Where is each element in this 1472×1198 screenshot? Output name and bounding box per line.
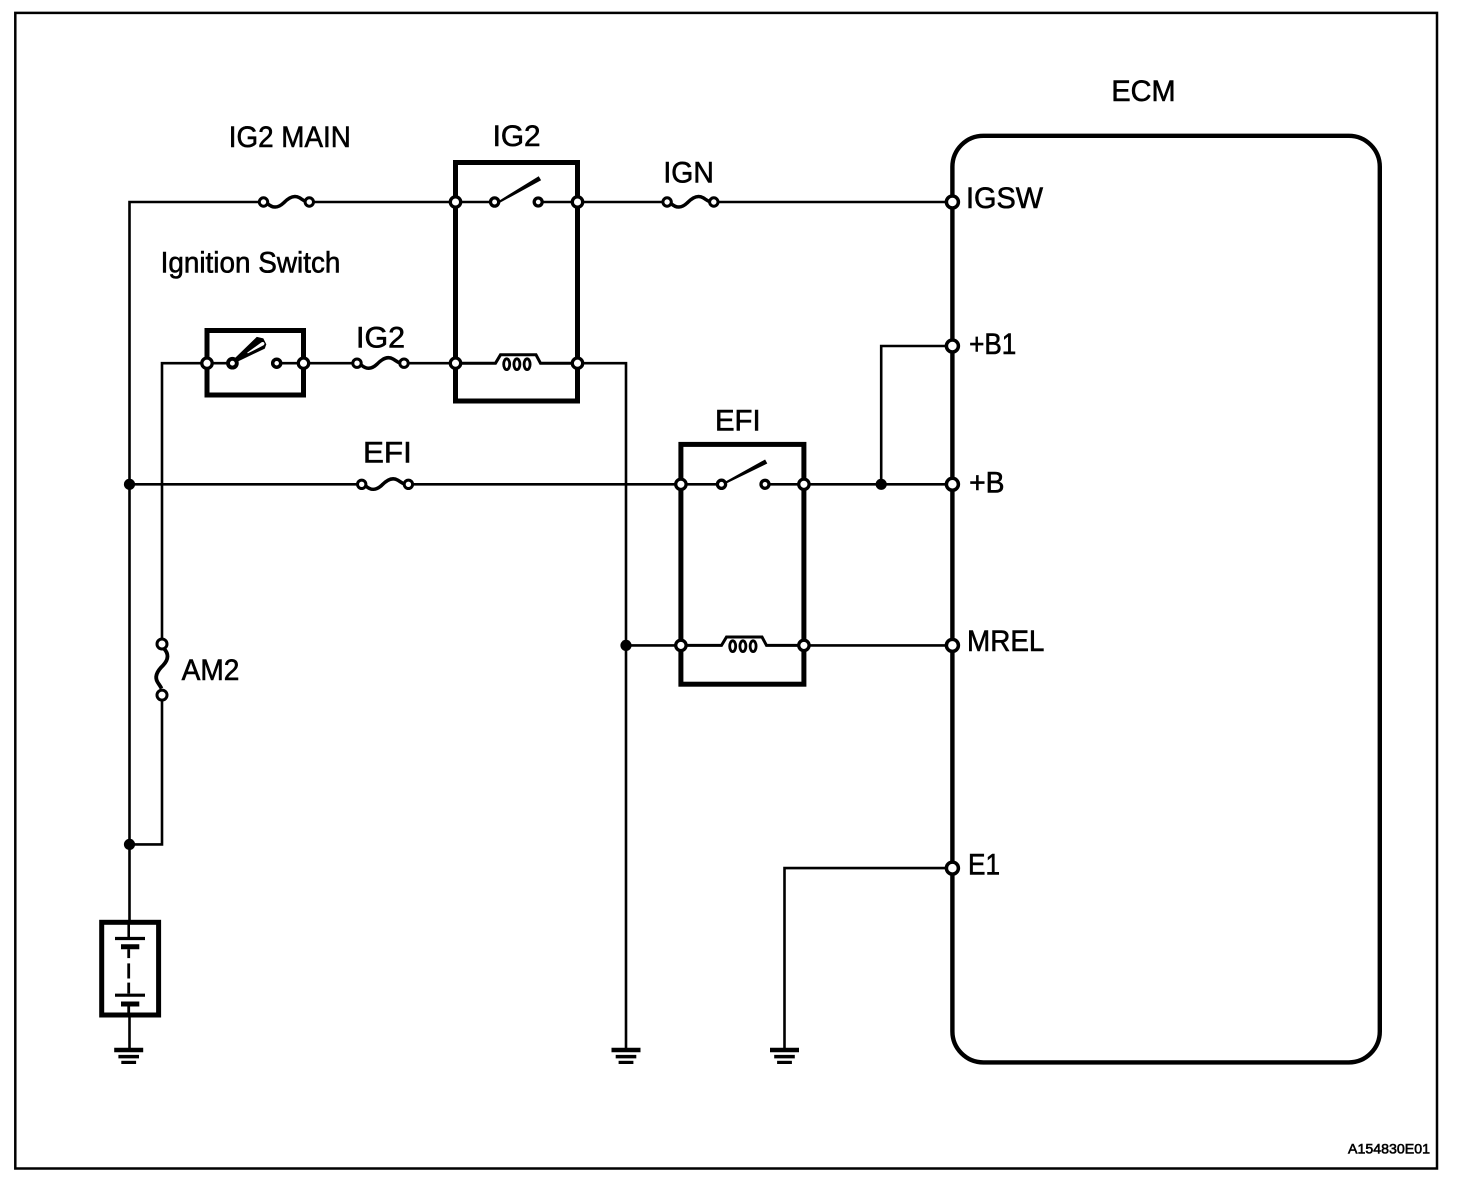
svg-text:+B: +B bbox=[969, 467, 1004, 500]
svg-text:IG2: IG2 bbox=[356, 322, 405, 355]
svg-text:IGN: IGN bbox=[663, 156, 713, 189]
svg-text:+B1: +B1 bbox=[969, 328, 1016, 361]
svg-text:EFI: EFI bbox=[715, 405, 761, 438]
svg-text:ECM: ECM bbox=[1111, 75, 1175, 108]
svg-text:MREL: MREL bbox=[967, 625, 1044, 658]
svg-text:EFI: EFI bbox=[363, 436, 412, 469]
svg-text:IG2 MAIN: IG2 MAIN bbox=[229, 121, 351, 154]
svg-text:Ignition Switch: Ignition Switch bbox=[161, 246, 341, 279]
svg-text:A154830E01: A154830E01 bbox=[1348, 1141, 1430, 1157]
svg-text:IG2: IG2 bbox=[493, 120, 541, 153]
svg-text:AM2: AM2 bbox=[182, 654, 240, 687]
svg-text:E1: E1 bbox=[968, 849, 1000, 882]
svg-text:IGSW: IGSW bbox=[966, 182, 1044, 215]
